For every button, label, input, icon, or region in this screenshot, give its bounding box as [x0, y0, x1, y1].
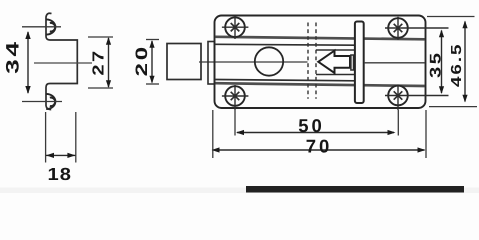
dimension 18 line and arrows [46, 154, 75, 156]
dimension 35 line and arrows [441, 31, 443, 94]
retracted position dashed line 2 [315, 23, 317, 99]
plate inner bottom fold line [216, 83, 425, 86]
dimension 50 line and arrows [237, 132, 394, 134]
dimension 34 line and arrows [27, 32, 29, 93]
dimension 70 extension lines [213, 110, 426, 158]
dimension 50 extension lines [235, 110, 398, 136]
bottom separator bar [246, 186, 464, 193]
bolt bottom edge inside plate [216, 80, 356, 81]
dimension 46.5 line and arrows [464, 22, 466, 102]
dimension 18 extension lines [46, 112, 76, 163]
label 46.5 [449, 43, 465, 88]
keeper middle hidden line [34, 62, 92, 64]
bolt nose rectangle [167, 44, 201, 80]
direction block arrow [318, 51, 350, 73]
screw hole bottom-right with 35 tick [385, 85, 449, 111]
collar rectangle [208, 42, 215, 85]
slider connector [351, 55, 354, 70]
svg-text:34: 34 [3, 39, 23, 74]
label 27 [91, 48, 108, 75]
knob circle [255, 47, 283, 75]
label 50 [298, 115, 325, 136]
retracted position dashed line 1 [307, 23, 309, 99]
screw hole top-left [222, 16, 249, 39]
base plate rounded rectangle [215, 16, 426, 109]
svg-text:27: 27 [91, 48, 108, 75]
dimension 27 extension ticks [88, 37, 113, 88]
keeper bracket outline (left view) [46, 13, 77, 109]
dimension 70 line and arrows [215, 149, 425, 151]
screw head top (side dome) [46, 19, 55, 34]
svg-text:70: 70 [306, 136, 333, 157]
svg-text:50: 50 [298, 115, 325, 136]
svg-text:46.5: 46.5 [449, 43, 465, 88]
screw hole top-right with 35 tick [385, 17, 449, 40]
label 18 [47, 164, 72, 184]
bolt tail line right of bar [364, 62, 425, 64]
dimension 27 line and arrows [108, 38, 110, 87]
label 20 [133, 44, 151, 76]
screw head bottom (side dome) [46, 94, 55, 109]
bolt axis centerline left [199, 61, 308, 63]
svg-text:20: 20 [133, 44, 151, 76]
bolt top edge inside plate [216, 43, 356, 46]
plate inner top fold line [216, 37, 425, 40]
dimension 20 extension ticks [146, 40, 159, 85]
bottom faint band [0, 188, 479, 194]
label 34 [3, 39, 23, 74]
thumb bar [355, 22, 364, 104]
dimension 20 line and arrows [151, 41, 153, 83]
dimension 46.5 extension ticks [427, 17, 477, 107]
slide slot bottom edge [316, 74, 355, 76]
slide slot top edge [316, 49, 355, 51]
svg-text:18: 18 [47, 164, 72, 184]
label 35 [428, 50, 445, 78]
dimension 34 extension lines [22, 27, 62, 102]
svg-text:35: 35 [428, 50, 445, 78]
screw hole bottom-left [222, 85, 249, 110]
label 70 [306, 136, 333, 157]
